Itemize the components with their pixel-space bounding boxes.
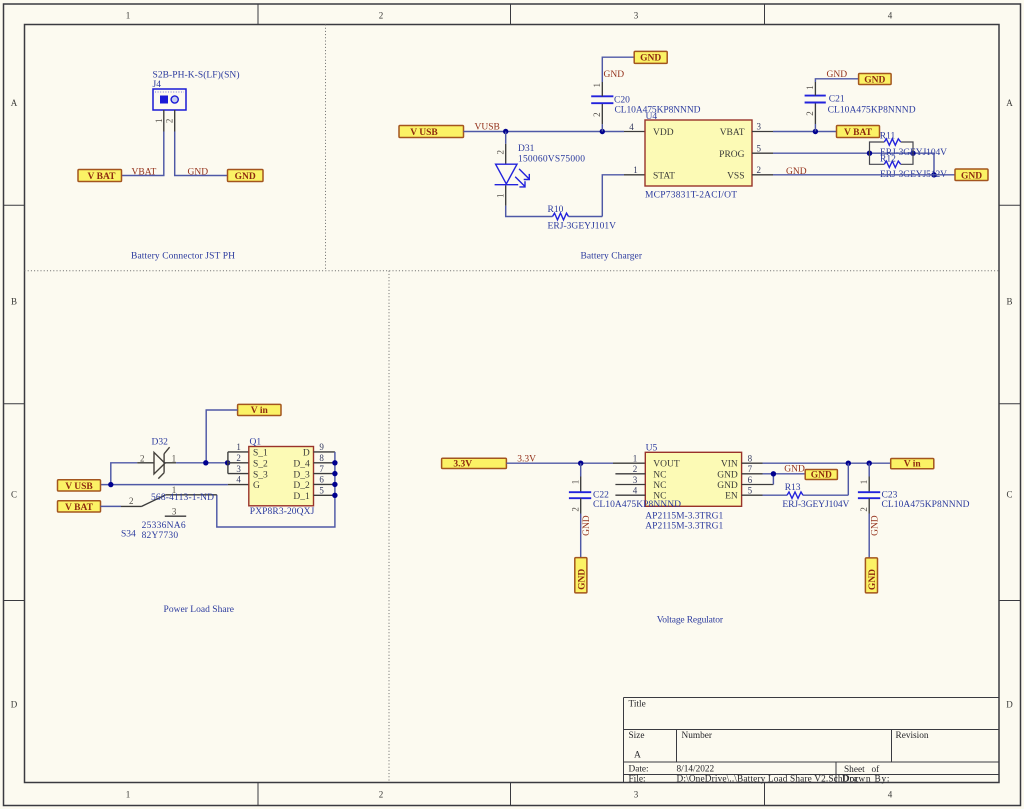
svg-text:R10: R10	[548, 205, 564, 215]
svg-text:Voltage Regulator: Voltage Regulator	[657, 615, 724, 625]
svg-text:C: C	[1006, 490, 1012, 500]
svg-text:4: 4	[888, 10, 893, 20]
svg-text:D: D	[11, 700, 18, 710]
svg-text:S2B-PH-K-S(LF)(SN): S2B-PH-K-S(LF)(SN)	[153, 69, 240, 80]
svg-text:4: 4	[633, 486, 638, 496]
svg-text:2: 2	[805, 111, 815, 116]
svg-text:GND: GND	[235, 172, 256, 182]
svg-text:Title: Title	[629, 700, 646, 710]
svg-text:568-4113-1-ND: 568-4113-1-ND	[151, 493, 214, 503]
svg-text:U5: U5	[646, 444, 658, 454]
svg-text:B: B	[1006, 297, 1012, 307]
svg-text:GND: GND	[961, 171, 982, 181]
svg-text:D_3: D_3	[293, 470, 310, 480]
svg-text:8/14/2022: 8/14/2022	[677, 764, 715, 774]
svg-text:V BAT: V BAT	[88, 172, 117, 182]
svg-text:V in: V in	[904, 460, 922, 470]
svg-text:6: 6	[748, 475, 753, 485]
svg-text:3: 3	[634, 790, 639, 800]
svg-text:of: of	[872, 764, 881, 775]
svg-text:U4: U4	[646, 112, 658, 122]
svg-text:V BAT: V BAT	[65, 503, 94, 513]
svg-text:D: D	[303, 449, 310, 459]
svg-text:1: 1	[154, 119, 164, 124]
svg-text:GND: GND	[871, 515, 881, 536]
svg-text:STAT: STAT	[653, 172, 675, 182]
svg-text:D_4: D_4	[293, 460, 310, 470]
svg-text:A: A	[1006, 98, 1013, 108]
svg-text:25336NA6: 25336NA6	[142, 521, 186, 531]
svg-text:GND: GND	[604, 70, 625, 80]
svg-text:Power Load Share: Power Load Share	[164, 605, 235, 615]
svg-text:C: C	[11, 490, 17, 500]
svg-text:7: 7	[748, 464, 753, 474]
svg-text:2: 2	[757, 165, 762, 175]
svg-text:GND: GND	[717, 470, 738, 480]
svg-text:D_1: D_1	[293, 492, 310, 502]
svg-text:ERJ-3GEYJ104V: ERJ-3GEYJ104V	[782, 500, 849, 510]
svg-text:VDD: VDD	[653, 128, 674, 138]
svg-text:1: 1	[633, 165, 638, 175]
svg-text:82Y7730: 82Y7730	[142, 531, 179, 541]
svg-text:2: 2	[129, 496, 134, 506]
svg-text:NC: NC	[653, 481, 666, 491]
svg-text:R13: R13	[785, 483, 801, 493]
svg-text:5: 5	[748, 486, 753, 496]
svg-text:6: 6	[319, 475, 324, 485]
svg-text:Drawn By:: Drawn By:	[842, 774, 890, 784]
svg-text:2: 2	[165, 119, 175, 124]
svg-text:V USB: V USB	[410, 128, 438, 138]
svg-text:CL10A475KP8NNND: CL10A475KP8NNND	[615, 106, 701, 116]
svg-text:2: 2	[633, 464, 638, 474]
svg-text:VIN: VIN	[721, 460, 738, 470]
svg-text:3: 3	[634, 10, 639, 20]
svg-text:G: G	[253, 481, 260, 491]
svg-text:Q1: Q1	[250, 437, 262, 447]
svg-text:C20: C20	[614, 95, 630, 105]
svg-text:7: 7	[319, 464, 324, 474]
svg-text:B: B	[11, 297, 17, 307]
svg-text:Battery Connector JST PH: Battery Connector JST PH	[131, 252, 235, 262]
svg-text:GND: GND	[640, 54, 661, 64]
svg-text:5: 5	[757, 143, 762, 153]
svg-text:1: 1	[172, 454, 177, 464]
svg-text:1: 1	[496, 193, 506, 198]
svg-text:MCP73831T-2ACI/OT: MCP73831T-2ACI/OT	[645, 190, 737, 200]
svg-text:GND: GND	[786, 167, 807, 177]
svg-text:R12: R12	[880, 155, 896, 165]
svg-text:V in: V in	[251, 406, 269, 416]
svg-text:Revision: Revision	[896, 731, 929, 741]
svg-text:3: 3	[172, 507, 177, 517]
svg-text:Battery Charger: Battery Charger	[581, 252, 643, 262]
svg-text:1: 1	[592, 83, 602, 88]
svg-text:3.3V: 3.3V	[453, 459, 472, 469]
svg-text:GND: GND	[811, 471, 832, 481]
svg-text:4: 4	[629, 122, 634, 132]
svg-text:S_1: S_1	[253, 449, 268, 459]
svg-text:D31: D31	[518, 144, 535, 154]
svg-text:EN: EN	[725, 492, 738, 502]
svg-text:150060VS75000: 150060VS75000	[518, 155, 585, 165]
svg-text:8: 8	[319, 453, 324, 463]
svg-text:VSS: VSS	[727, 172, 744, 182]
svg-text:AP2115M-3.3TRG1: AP2115M-3.3TRG1	[645, 511, 723, 521]
svg-text:1: 1	[236, 442, 241, 452]
svg-text:9: 9	[319, 442, 324, 452]
svg-text:ERJ-3GEYJ101V: ERJ-3GEYJ101V	[548, 222, 617, 232]
svg-text:AP2115M-3.3TRG1: AP2115M-3.3TRG1	[645, 521, 723, 531]
svg-text:2: 2	[140, 454, 145, 464]
svg-text:PROG: PROG	[719, 150, 744, 160]
svg-text:GND: GND	[577, 569, 587, 590]
svg-text:Sheet: Sheet	[844, 765, 865, 775]
svg-text:1: 1	[859, 480, 869, 485]
svg-text:GND: GND	[864, 75, 885, 85]
svg-text:2: 2	[236, 453, 241, 463]
svg-text:Size: Size	[629, 731, 645, 741]
svg-text:GND: GND	[717, 481, 738, 491]
svg-text:1: 1	[126, 10, 131, 20]
svg-text:C22: C22	[593, 490, 609, 500]
svg-text:GND: GND	[784, 465, 805, 475]
svg-text:3: 3	[236, 464, 241, 474]
svg-text:4: 4	[888, 790, 893, 800]
svg-text:V USB: V USB	[65, 482, 93, 492]
svg-text:D32: D32	[152, 438, 169, 448]
svg-text:GND: GND	[827, 70, 848, 80]
svg-text:C21: C21	[829, 95, 845, 105]
svg-text:CL10A475KP8NNND: CL10A475KP8NNND	[828, 106, 916, 116]
svg-text:C23: C23	[882, 490, 898, 500]
svg-text:D_2: D_2	[293, 481, 310, 491]
svg-text:2: 2	[496, 150, 506, 155]
svg-text:1: 1	[805, 85, 815, 90]
svg-text:V BAT: V BAT	[844, 128, 873, 138]
svg-text:CL10A475KP8NNND: CL10A475KP8NNND	[882, 500, 970, 510]
svg-text:1: 1	[633, 453, 638, 463]
svg-text:VBAT: VBAT	[132, 167, 157, 177]
svg-text:2: 2	[592, 112, 602, 117]
svg-text:Number: Number	[682, 731, 713, 741]
svg-text:D:\OneDrive\..\Battery Load Sh: D:\OneDrive\..\Battery Load Share V2.Sch…	[677, 774, 859, 784]
svg-text:PXP8R3-20QXJ: PXP8R3-20QXJ	[250, 507, 315, 517]
svg-text:A: A	[11, 98, 18, 108]
svg-text:2: 2	[379, 10, 384, 20]
svg-text:8: 8	[748, 453, 753, 463]
svg-text:S34: S34	[121, 530, 136, 540]
svg-text:VBAT: VBAT	[720, 128, 745, 138]
svg-text:NC: NC	[653, 470, 666, 480]
svg-text:Date:: Date:	[629, 764, 649, 774]
svg-text:VOUT: VOUT	[653, 460, 680, 470]
svg-text:GND: GND	[188, 167, 209, 177]
svg-text:A: A	[634, 751, 641, 761]
svg-text:3: 3	[633, 475, 638, 485]
svg-text:GND: GND	[868, 569, 878, 590]
svg-text:GND: GND	[582, 515, 592, 536]
svg-text:S_3: S_3	[253, 470, 268, 480]
svg-text:3: 3	[757, 122, 762, 132]
svg-text:S_2: S_2	[253, 460, 268, 470]
svg-text:5: 5	[319, 486, 324, 496]
svg-text:2: 2	[571, 507, 581, 512]
svg-text:2: 2	[379, 790, 384, 800]
svg-text:1: 1	[126, 790, 131, 800]
svg-text:2: 2	[859, 507, 869, 512]
svg-text:CL10A475KP8NNND: CL10A475KP8NNND	[593, 500, 681, 510]
svg-text:1: 1	[571, 480, 581, 485]
svg-text:File:: File:	[629, 774, 646, 784]
svg-text:D: D	[1006, 700, 1013, 710]
svg-text:4: 4	[236, 475, 241, 485]
